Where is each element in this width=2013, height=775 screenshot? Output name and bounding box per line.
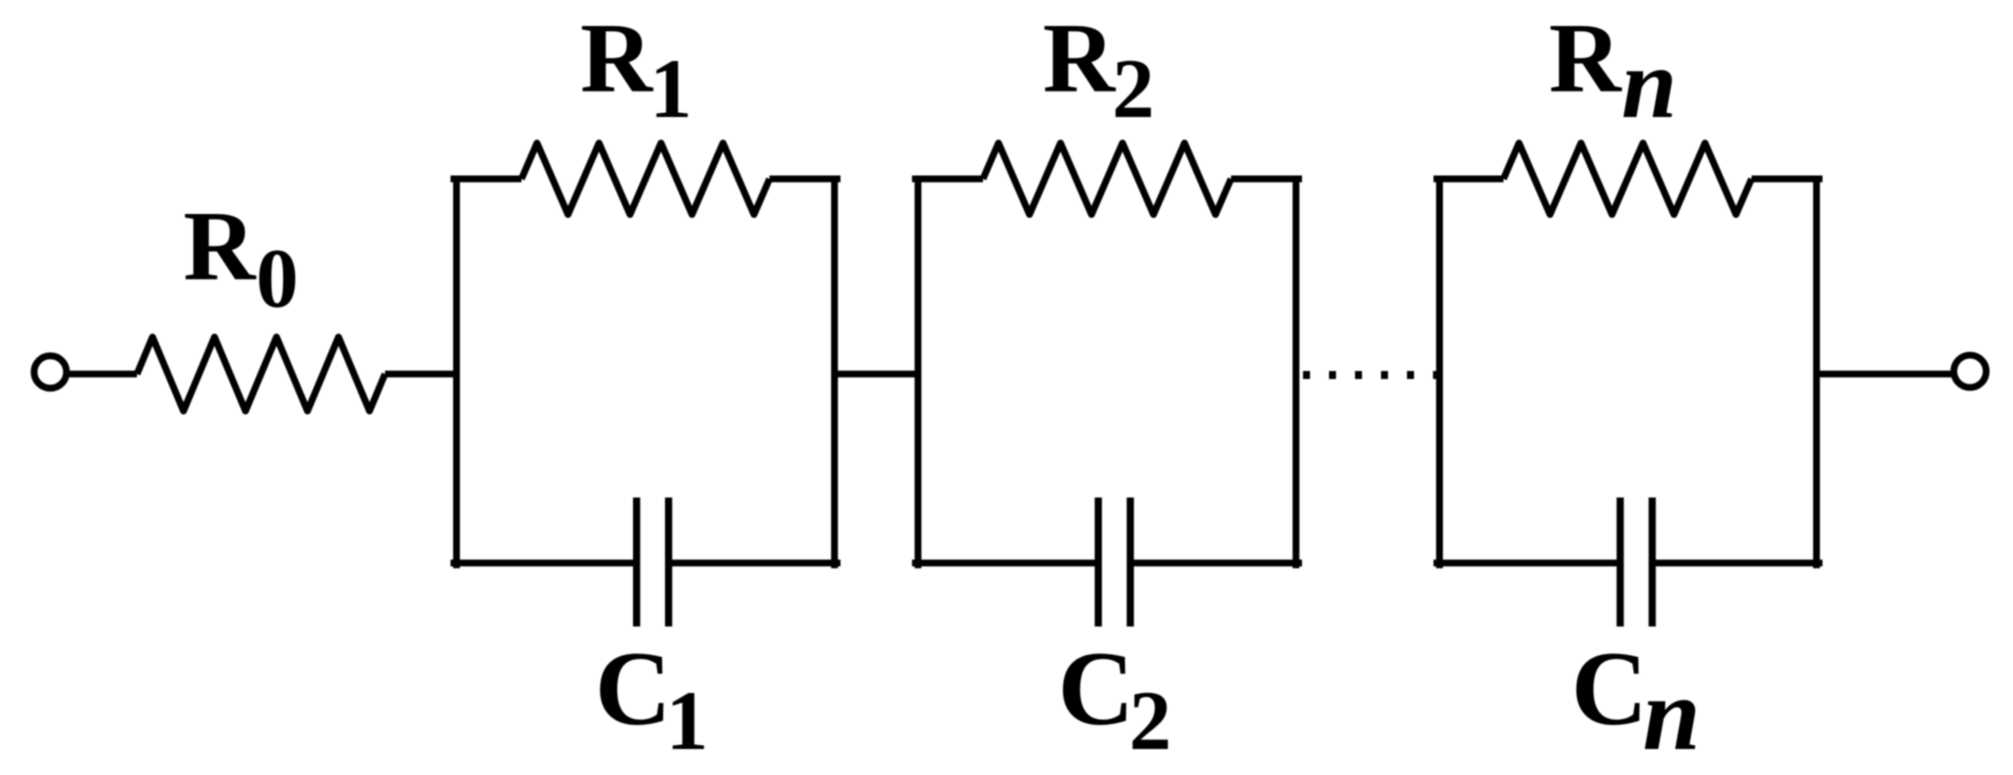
svg-text:R: R <box>183 190 257 301</box>
svg-text:2: 2 <box>1129 674 1172 768</box>
svg-text:R: R <box>580 2 654 113</box>
svg-text:R: R <box>1043 2 1117 113</box>
svg-text:n: n <box>1643 657 1701 772</box>
svg-text:0: 0 <box>256 232 299 326</box>
svg-text:1: 1 <box>666 674 709 768</box>
svg-text:C: C <box>1571 630 1648 747</box>
svg-text:C: C <box>595 630 672 747</box>
svg-text:n: n <box>1621 28 1677 139</box>
svg-text:2: 2 <box>1112 42 1155 136</box>
svg-text:R: R <box>1549 2 1623 113</box>
svg-text:C: C <box>1058 630 1135 747</box>
svg-text:1: 1 <box>650 42 693 136</box>
